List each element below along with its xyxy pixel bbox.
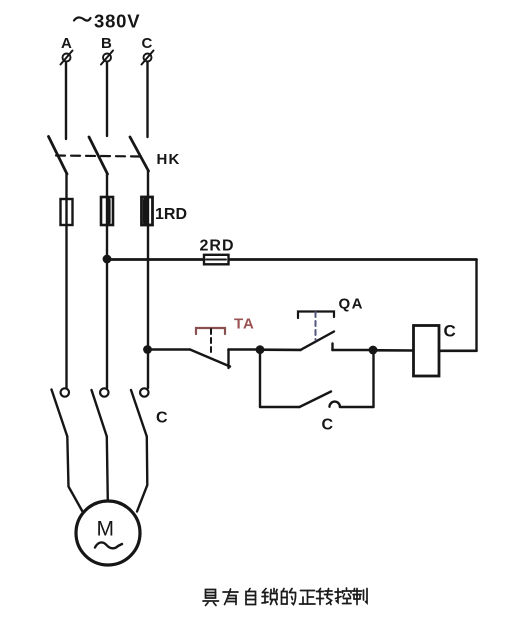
junction 3	[369, 346, 378, 355]
wire pole C to motor	[137, 437, 147, 512]
caption char 控	[335, 588, 351, 604]
pushbutton QA start (NO) blade	[301, 332, 335, 350]
wire junction3 to coil	[373, 349, 414, 352]
node C terminal	[142, 35, 154, 65]
svg-text:2RD: 2RD	[200, 238, 235, 255]
motor AC tilde	[95, 542, 122, 548]
node A terminal	[61, 35, 73, 65]
wire TA to junction 2	[229, 348, 261, 351]
pushbutton QA actuator dashed	[315, 312, 317, 340]
knife switch HK linkage dashed	[56, 156, 142, 157]
pushbutton TA actuator dashed	[210, 329, 212, 356]
main contact C pole B terminal circle	[100, 388, 108, 396]
svg-text:TA: TA	[234, 316, 255, 333]
pushbutton TA cap	[196, 328, 225, 334]
junction on phase C control tap	[143, 345, 152, 354]
svg-text:380V: 380V	[94, 11, 140, 32]
pushbutton QA cap	[298, 312, 334, 319]
contactor coil C	[414, 326, 440, 377]
caption char 转	[317, 589, 333, 605]
wire coil to right vertical	[439, 349, 477, 352]
svg-text:QA: QA	[339, 296, 365, 313]
caption char 的	[282, 589, 296, 605]
power label ~380V	[74, 11, 140, 32]
fuse 1RD pole C	[142, 197, 153, 225]
pushbutton TA right terminal	[227, 350, 229, 369]
main contact C pole C terminal circle	[140, 388, 148, 396]
main contact C pole A terminal circle	[61, 388, 69, 396]
wire phase B top	[106, 62, 108, 136]
caption char 锁	[262, 589, 277, 605]
auxiliary contact C (self-lock) blade	[300, 392, 332, 408]
pushbutton QA right terminal	[331, 344, 333, 351]
svg-text:B: B	[101, 35, 112, 52]
wire self-lock bottom left	[260, 406, 300, 408]
caption char 制	[353, 589, 368, 605]
wire control top horizontal	[107, 258, 477, 261]
svg-text:1RD: 1RD	[155, 206, 187, 223]
wire phase C top	[146, 62, 148, 137]
svg-text:M: M	[97, 518, 115, 541]
main contact C pole A blade	[52, 390, 68, 437]
main contact C pole C blade	[131, 390, 147, 437]
wire pole B to motor	[107, 437, 108, 502]
caption char 有	[223, 589, 238, 605]
wire self-lock bottom right	[340, 406, 374, 408]
wire A switch to contact	[65, 174, 67, 388]
fuse 2RD	[204, 255, 229, 264]
fuse 1RD pole A	[61, 199, 73, 225]
svg-text:A: A	[61, 35, 72, 52]
caption char 具	[203, 590, 219, 606]
wire phase A top	[65, 62, 67, 139]
fuse 1RD pole B	[101, 197, 113, 225]
wire junction2 to QA	[260, 348, 301, 351]
knife switch HK pole A blade	[49, 137, 68, 175]
node B terminal	[101, 35, 113, 65]
junction 2	[256, 345, 265, 354]
knife switch HK pole C blade	[130, 137, 149, 171]
wire C tap to TA	[148, 348, 191, 351]
wire pole A to motor	[67, 437, 82, 512]
caption char 自	[246, 589, 256, 605]
wire self-lock right vertical	[372, 350, 374, 407]
wire C switch to contact	[147, 171, 149, 388]
junction on phase B control tap	[103, 255, 112, 264]
caption char 正	[300, 591, 316, 605]
knife switch HK pole B blade	[89, 137, 108, 174]
svg-text:C: C	[142, 35, 153, 52]
wire QA to junction 3	[333, 349, 374, 352]
caption 具有自锁的正转控制	[203, 588, 367, 606]
pushbutton TA stop (NC) blade	[190, 350, 230, 367]
svg-text:HK: HK	[157, 151, 181, 168]
svg-text:C: C	[156, 410, 168, 427]
motor M body	[76, 501, 140, 565]
svg-text:C: C	[322, 417, 334, 434]
auxiliary contact C fixed terminal arc	[330, 402, 340, 407]
svg-text:C: C	[444, 322, 456, 341]
wire B switch to contact	[106, 174, 108, 388]
wire control right vertical	[475, 260, 477, 351]
wire self-lock left vertical	[259, 350, 261, 407]
main contact C pole B blade	[92, 390, 107, 437]
